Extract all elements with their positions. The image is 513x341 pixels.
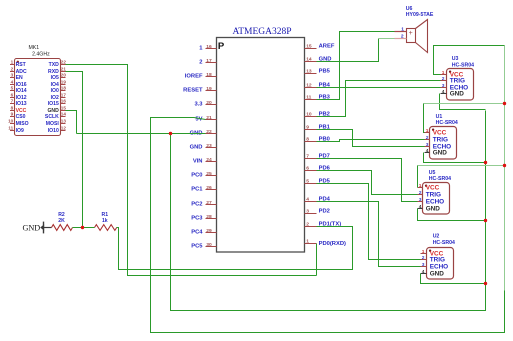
svg-text:2: 2	[419, 190, 422, 196]
sensor U3 HC-SR04	[447, 69, 474, 101]
svg-text:7: 7	[306, 154, 309, 160]
U2 pin 3 ECHO	[421, 266, 427, 268]
svg-text:PD2: PD2	[319, 209, 330, 215]
U pin 22 GND	[206, 133, 217, 135]
MK1 pin 7 IO13	[10, 103, 15, 105]
svg-text:17: 17	[61, 93, 67, 98]
svg-text:ATMEGA328P: ATMEGA328P	[232, 27, 291, 37]
svg-text:PD0(RXD): PD0(RXD)	[319, 241, 346, 247]
wire VCC rail (pale)	[504, 46, 506, 291]
U pin 8 PB0	[305, 141, 317, 143]
svg-text:3: 3	[11, 73, 14, 78]
svg-text:2: 2	[306, 222, 309, 228]
svg-text:29: 29	[206, 228, 212, 234]
svg-text:PC2: PC2	[191, 202, 202, 208]
svg-text:15: 15	[61, 106, 67, 111]
U5 pin 1 VCC	[418, 187, 423, 189]
MK1 pin 14 SCLK	[61, 116, 66, 118]
svg-text:12: 12	[306, 83, 312, 89]
wire U5 GND to rail	[418, 209, 486, 221]
MK1 pin 22 TXD	[61, 64, 66, 66]
svg-text:IOREF: IOREF	[185, 74, 203, 80]
svg-text:GND: GND	[433, 150, 448, 157]
junction GND net	[169, 132, 172, 135]
svg-text:GND: GND	[190, 145, 203, 151]
svg-text:1: 1	[426, 128, 429, 134]
MK1 pin 11 IO9	[10, 130, 15, 132]
U pin 15 AREF	[305, 48, 317, 50]
svg-text:U2: U2	[433, 234, 440, 240]
svg-text:25: 25	[206, 171, 212, 177]
U pin 19 RESET	[206, 90, 217, 92]
wire PB2 to U3 TRIG	[317, 81, 441, 117]
svg-text:VCC: VCC	[433, 130, 447, 137]
MK1 pin 3 EN	[10, 77, 15, 79]
MK1 pin 1 RST	[10, 64, 15, 66]
U pin 30 PC5	[206, 246, 217, 248]
svg-text:13: 13	[61, 119, 67, 124]
U pin 5 PD5	[305, 183, 317, 185]
wire GND drop / bottom / right rail	[171, 111, 486, 311]
svg-text:2K: 2K	[58, 218, 65, 224]
svg-text:17: 17	[206, 58, 212, 64]
svg-text:30: 30	[206, 242, 212, 248]
svg-text:RESET: RESET	[183, 88, 203, 94]
svg-text:4: 4	[422, 269, 425, 275]
svg-text:PC5: PC5	[191, 244, 203, 250]
svg-text:PC0: PC0	[191, 173, 202, 179]
svg-text:24: 24	[206, 157, 212, 163]
svg-text:HC-SR04: HC-SR04	[429, 176, 451, 182]
U pin 29 PC4	[206, 232, 217, 234]
svg-text:IO14: IO14	[16, 88, 27, 94]
U5 pin 3 ECHO	[418, 201, 423, 203]
svg-text:PC3: PC3	[191, 216, 203, 222]
svg-text:1: 1	[11, 60, 14, 65]
MK1 pin 19 IO4	[61, 84, 66, 86]
MK1 pin 17 IO2	[61, 97, 66, 99]
MK1 pin 12 IO10	[61, 130, 66, 132]
wire MK1 GND down	[66, 111, 77, 134]
svg-text:22: 22	[61, 60, 67, 65]
U pin 14 GND	[305, 61, 317, 63]
IC U: ATMEGA328P body	[217, 38, 305, 253]
wire U5 VCC feed (pale)	[418, 165, 505, 167]
svg-text:3: 3	[419, 197, 422, 203]
U pin 12 PB4	[305, 87, 317, 89]
svg-text:20: 20	[206, 100, 212, 106]
U2 pin-1 marker dot	[429, 250, 431, 252]
junction divider node	[81, 226, 84, 229]
svg-text:4: 4	[442, 89, 445, 95]
svg-text:TXD: TXD	[49, 62, 60, 68]
U3 pin 2 TRIG	[441, 80, 447, 82]
U pin 20 3.3	[206, 104, 217, 106]
MK1 pin 20 IO5	[61, 77, 66, 79]
MK1 pin-1 marker dot	[17, 61, 19, 63]
svg-text:22: 22	[206, 129, 212, 135]
svg-text:EN: EN	[16, 75, 23, 81]
wire PB0 to U1 TRIG	[317, 140, 425, 142]
svg-text:14: 14	[61, 112, 67, 117]
svg-text:20: 20	[61, 73, 67, 78]
U3 pin 1 VCC	[441, 74, 447, 76]
U1 pin-1 marker dot	[432, 129, 434, 131]
svg-text:2: 2	[442, 76, 445, 82]
wire MK1 TXD to U PD0(RXD)	[66, 65, 317, 276]
resistor R1 1k	[95, 225, 117, 231]
MK1 pin 21 RXD	[61, 71, 66, 73]
svg-text:VIN: VIN	[193, 159, 203, 165]
wire speaker pin2 segment (pale)	[379, 38, 395, 40]
MK1 pin 9 CS0	[10, 116, 15, 118]
svg-text:RST: RST	[16, 62, 27, 68]
svg-text:11: 11	[8, 126, 13, 131]
svg-text:P: P	[218, 41, 225, 52]
speaker U6 HY09-5TAE	[407, 29, 416, 43]
svg-text:2: 2	[426, 135, 429, 141]
svg-text:3: 3	[426, 142, 429, 148]
U pin 16 1	[206, 48, 217, 50]
U pin 21 5V	[206, 119, 217, 121]
svg-text:TRIG: TRIG	[430, 257, 445, 264]
wire VCC top to U3 VCC	[434, 46, 505, 75]
svg-text:11: 11	[306, 95, 311, 101]
svg-text:3.3: 3.3	[194, 102, 203, 108]
svg-text:PC1: PC1	[191, 187, 203, 193]
svg-text:7: 7	[11, 99, 14, 104]
svg-text:HY09-5TAE: HY09-5TAE	[406, 12, 434, 18]
module MK1 2.4GHz	[15, 59, 61, 136]
MK1 pin 13 MOSI	[61, 123, 66, 125]
U pin 10 PB2	[305, 116, 317, 118]
junction GND rail / U2	[484, 282, 487, 285]
wire U1 GND to rail	[424, 153, 486, 163]
wire U GND14 to speaker	[317, 39, 379, 62]
svg-text:AREF: AREF	[319, 44, 335, 50]
svg-text:MOSI: MOSI	[46, 121, 60, 127]
svg-text:13: 13	[306, 69, 312, 75]
MK1 pin 6 IO12	[10, 97, 15, 99]
svg-text:IO0: IO0	[51, 88, 59, 94]
svg-text:2: 2	[199, 60, 202, 66]
wire U5 VCC drop	[417, 166, 419, 188]
U pin 7 PD7	[305, 158, 317, 160]
U3 pin 4 GND	[441, 93, 447, 95]
sensor U2 HC-SR04	[427, 248, 454, 280]
MK1 pin 10 MISO	[10, 123, 15, 125]
svg-text:MK1: MK1	[28, 45, 39, 51]
svg-text:GND: GND	[22, 223, 40, 232]
wire PB1 to U1 ECHO	[317, 130, 425, 147]
wire R2-R1 link	[73, 227, 95, 229]
U pin 23 GND	[206, 147, 217, 149]
speaker pin 2 stub (pale)	[395, 38, 407, 40]
MK1 pin 16 IO15	[61, 103, 66, 105]
svg-text:8: 8	[11, 106, 14, 111]
U5 pin 4 GND	[418, 208, 423, 210]
svg-text:1: 1	[442, 70, 445, 76]
svg-text:U3: U3	[452, 56, 459, 62]
svg-text:1k: 1k	[102, 218, 108, 224]
junction VCC rail / U1	[503, 102, 506, 105]
svg-text:19: 19	[206, 86, 212, 92]
svg-text:IO10: IO10	[48, 128, 59, 134]
svg-text:4: 4	[11, 80, 14, 85]
svg-text:16: 16	[206, 44, 212, 50]
svg-text:26: 26	[206, 185, 212, 191]
svg-text:10: 10	[306, 112, 312, 118]
U pin 25 PC0	[206, 175, 217, 177]
svg-text:3: 3	[306, 209, 309, 215]
U pin 3 PD2	[305, 213, 317, 215]
wire PD5 to U2 TRIG	[317, 184, 421, 260]
svg-text:3: 3	[422, 262, 425, 268]
svg-text:+: +	[409, 30, 413, 37]
svg-text:PC4: PC4	[191, 230, 203, 236]
svg-text:ECHO: ECHO	[426, 199, 444, 206]
svg-text:6: 6	[11, 93, 14, 98]
svg-text:3: 3	[442, 83, 445, 89]
svg-text:18: 18	[206, 72, 212, 78]
svg-text:1: 1	[419, 183, 422, 189]
svg-text:9: 9	[306, 125, 309, 131]
svg-text:2: 2	[11, 67, 14, 72]
U pin 13 PB5	[305, 73, 317, 75]
junction GND rail / U5	[484, 219, 487, 222]
wire MK1 RXD to divider	[66, 72, 83, 228]
svg-text:GND: GND	[430, 271, 445, 278]
svg-text:10: 10	[8, 119, 14, 124]
svg-text:27: 27	[206, 200, 212, 206]
U3 pin-1 marker dot	[449, 71, 451, 73]
wire PB3 to speaker pin1	[317, 32, 395, 100]
U pin 1 PD0(RXD)	[305, 243, 317, 245]
svg-text:GND: GND	[426, 206, 441, 213]
wire 5V drop / bottom to VCC rail	[151, 118, 505, 333]
svg-text:6: 6	[306, 166, 309, 172]
U pin 4 PD4	[305, 201, 317, 203]
svg-text:14: 14	[306, 57, 312, 63]
svg-text:9: 9	[11, 112, 14, 117]
svg-text:4: 4	[306, 197, 309, 203]
svg-text:5: 5	[11, 86, 14, 91]
svg-text:1: 1	[401, 26, 404, 32]
svg-text:4: 4	[419, 204, 422, 210]
svg-text:HC-SR04: HC-SR04	[433, 240, 455, 246]
wire U2 GND to rail	[421, 274, 486, 284]
svg-text:IO9: IO9	[16, 128, 24, 134]
U pin 17 2	[206, 62, 217, 64]
svg-text:1: 1	[422, 249, 425, 255]
svg-text:5: 5	[306, 179, 309, 185]
U1 pin 4 GND	[425, 152, 430, 154]
U1 pin 1 VCC	[425, 132, 430, 134]
wire PD1(TX) to R1	[117, 227, 353, 270]
U5 pin 2 TRIG	[418, 194, 423, 196]
svg-text:HC-SR04: HC-SR04	[436, 120, 458, 126]
svg-text:21: 21	[206, 115, 212, 121]
svg-text:2: 2	[422, 255, 425, 261]
svg-text:23: 23	[206, 143, 212, 149]
svg-text:28: 28	[206, 214, 212, 220]
U pin 6 PD6	[305, 170, 317, 172]
svg-text:15: 15	[306, 44, 312, 50]
U pin 11 PB3	[305, 99, 317, 101]
svg-text:U5: U5	[429, 170, 436, 176]
svg-text:MISO: MISO	[16, 121, 29, 127]
wire PD4 to U2 ECHO	[317, 202, 421, 267]
svg-text:ECHO: ECHO	[430, 264, 448, 271]
svg-text:IO13: IO13	[16, 101, 27, 107]
wire PD0 drop	[316, 244, 318, 276]
resistor R2 2K	[52, 225, 73, 231]
svg-text:8: 8	[306, 137, 309, 143]
U pin 9 PB1	[305, 129, 317, 131]
MK1 pin 5 IO14	[10, 90, 15, 92]
svg-text:2.4GHz: 2.4GHz	[32, 52, 50, 58]
U1 pin 3 ECHO	[425, 146, 430, 148]
svg-text:1: 1	[306, 239, 309, 245]
svg-text:TRIG: TRIG	[450, 78, 465, 85]
sensor U1 HC-SR04	[430, 127, 457, 160]
svg-text:19: 19	[61, 80, 67, 85]
svg-text:PB5: PB5	[319, 69, 331, 75]
MK1 pin 4 IO16	[10, 84, 15, 86]
U1 pin 2 TRIG	[425, 139, 430, 141]
svg-text:2: 2	[401, 33, 404, 39]
svg-text:CS0: CS0	[16, 114, 26, 120]
wire U3 GND to GND rail	[440, 94, 486, 110]
junction VCC rail / U5	[503, 164, 506, 167]
U pin 18 IOREF	[206, 76, 217, 78]
svg-text:12: 12	[61, 126, 67, 131]
svg-text:4: 4	[426, 148, 429, 154]
U2 pin 4 GND	[421, 273, 427, 275]
svg-text:HC-SR04: HC-SR04	[452, 62, 474, 68]
svg-text:GND: GND	[450, 91, 465, 98]
svg-text:IO5: IO5	[51, 75, 59, 81]
junction GND rail / U1	[484, 161, 487, 164]
U pin 2 PD1(TX)	[305, 226, 317, 228]
wire PD7 to U5 ECHO	[317, 159, 418, 202]
wire U1 VCC drop	[424, 104, 425, 133]
U2 pin 1 VCC	[421, 253, 427, 255]
U pin 24 VIN	[206, 161, 217, 163]
svg-text:IO15: IO15	[48, 101, 59, 107]
wire GND rail to U pin22	[77, 133, 206, 135]
svg-text:SCLK: SCLK	[45, 114, 59, 120]
U pin 26 PC1	[206, 189, 217, 191]
U pin 27 PC2	[206, 204, 217, 206]
sensor U5 HC-SR04	[423, 183, 450, 215]
svg-text:TRIG: TRIG	[426, 192, 441, 199]
speaker pin 1 stub	[395, 31, 407, 33]
MK1 pin 2 ADC	[10, 71, 15, 73]
svg-text:U1: U1	[436, 114, 443, 120]
svg-text:18: 18	[61, 86, 67, 91]
svg-text:21: 21	[61, 67, 67, 72]
svg-text:VCC: VCC	[426, 185, 440, 192]
MK1 pin 18 IO0	[61, 90, 66, 92]
MK1 pin 15 GND	[61, 110, 66, 112]
svg-text:TRIG: TRIG	[433, 137, 448, 144]
svg-text:16: 16	[61, 99, 67, 104]
U2 pin 2 TRIG	[421, 259, 427, 261]
U5 pin-1 marker dot	[425, 185, 427, 187]
U3 pin 3 ECHO	[441, 87, 447, 89]
U pin 28 PC3	[206, 218, 217, 220]
MK1 pin 8 VCC	[10, 110, 15, 112]
wire PB4 to U3 ECHO	[317, 87, 441, 89]
wire PD6 to U5 TRIG	[317, 171, 418, 195]
wire U1 VCC feed (pale)	[424, 103, 505, 105]
